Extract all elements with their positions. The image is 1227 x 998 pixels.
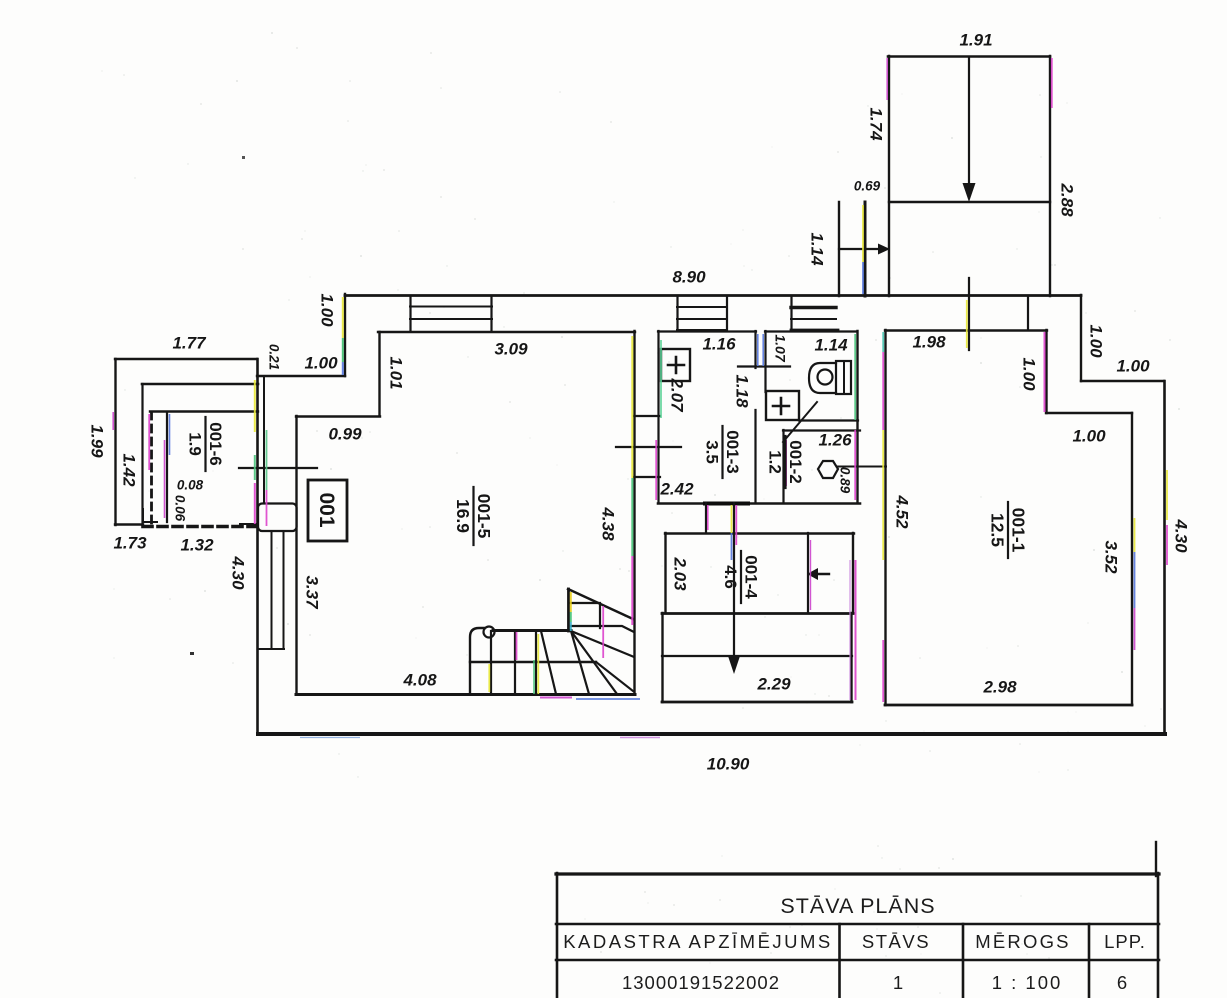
- room label 001-2 1.2: [766, 436, 806, 488]
- dim label 1.00: [1072, 426, 1106, 445]
- table column line 3: [1088, 924, 1091, 998]
- svg-text:1.07: 1.07: [772, 334, 788, 362]
- svg-text:1.26: 1.26: [818, 430, 852, 449]
- plus fixture box 2: [766, 391, 799, 420]
- window left wall bottom cap: [258, 648, 284, 650]
- svg-text:1.77: 1.77: [172, 333, 207, 352]
- dim label 0.08: [177, 478, 204, 493]
- svg-text:4.38: 4.38: [599, 506, 618, 541]
- svg-text:4.6: 4.6: [721, 565, 740, 589]
- dimension line short below 503: [705, 503, 707, 533]
- toilet tank inner line: [843, 361, 845, 394]
- toilet room left wall: [764, 331, 766, 392]
- dim label 3.37: [303, 575, 322, 610]
- annex bottom wall short: [115, 523, 143, 525]
- svg-text:1.73: 1.73: [113, 533, 147, 552]
- table outer left: [556, 873, 559, 998]
- table row line 2: [556, 959, 1159, 962]
- dim label 1.77: [172, 333, 207, 352]
- dim label 4.52: [893, 494, 912, 529]
- svg-text:0.99: 0.99: [328, 424, 362, 443]
- svg-text:MĒROGS: MĒROGS: [975, 931, 1070, 952]
- annex inner top wall: [150, 410, 258, 412]
- svg-text:3.37: 3.37: [303, 575, 322, 610]
- stairs newel circle: [484, 627, 495, 638]
- svg-text:1.74: 1.74: [867, 107, 886, 141]
- entrance porch left wall: [888, 56, 890, 296]
- room 001-1 left wall: [884, 330, 886, 705]
- room 001-3 right wall lower: [754, 410, 756, 503]
- window W3 bottom cap dark: [791, 329, 838, 332]
- toilet tank: [836, 361, 851, 394]
- table column line 1: [838, 924, 841, 998]
- svg-text:LPP.: LPP.: [1104, 931, 1146, 952]
- room 001-4 divider wall: [807, 533, 809, 613]
- left outer wall inner face: [263, 376, 265, 503]
- dim label 1.91: [959, 30, 992, 49]
- dim label 1.00: [318, 293, 337, 327]
- stairs upper tread 2: [571, 626, 634, 632]
- door lintel 001-3: [738, 365, 790, 367]
- svg-text:1.32: 1.32: [180, 535, 214, 554]
- svg-text:4.52: 4.52: [893, 494, 912, 529]
- window W2 right jamb: [726, 296, 728, 330]
- window W3 pane line 1 dark: [791, 306, 836, 309]
- dimension tick wall long: [616, 446, 681, 448]
- svg-text:8.90: 8.90: [672, 267, 706, 286]
- dim label 1.00: [1116, 356, 1150, 375]
- svg-text:1.91: 1.91: [959, 30, 992, 49]
- svg-text:1.00: 1.00: [1087, 324, 1106, 358]
- dim label 4.38: [599, 506, 618, 541]
- dim label 0.69: [854, 179, 881, 194]
- dim label 3.52: [1102, 540, 1121, 574]
- svg-text:1.98: 1.98: [912, 332, 946, 351]
- svg-text:12.5: 12.5: [988, 513, 1008, 547]
- room 001-1 top wall: [885, 329, 1047, 331]
- door swing diagonal: [783, 402, 817, 442]
- annex dashed bottom wall: [143, 525, 263, 529]
- dim label 10.90: [707, 754, 750, 773]
- middle bottom wall dark segment: [705, 502, 748, 506]
- bottom outer wall: [258, 732, 1165, 736]
- svg-text:1.14: 1.14: [814, 335, 848, 354]
- right outer wall step: [1081, 380, 1164, 382]
- right outer wall upper: [1080, 295, 1082, 381]
- dim label 1.18: [733, 374, 752, 408]
- svg-text:0.89: 0.89: [837, 467, 852, 494]
- dim label 1.99: [88, 424, 107, 458]
- svg-text:1.00: 1.00: [1020, 357, 1039, 391]
- dim label 1.73: [113, 533, 147, 552]
- room 001-5 bottom inner wall: [296, 693, 635, 696]
- svg-text:1.16: 1.16: [702, 334, 736, 353]
- svg-text:13000191522002: 13000191522002: [622, 972, 780, 993]
- dim label 3.09: [494, 339, 528, 358]
- plus sign 1: [668, 357, 684, 373]
- svg-text:001: 001: [315, 492, 338, 527]
- corridor block mid wall: [662, 655, 852, 657]
- dimension tick 1.98: [968, 278, 970, 350]
- top-left corner wall: [344, 294, 346, 376]
- room 001-1 notch wall: [1046, 412, 1132, 414]
- window W3 left jamb: [790, 296, 792, 330]
- svg-text:2.03: 2.03: [671, 556, 690, 591]
- room number box 001: [308, 480, 347, 541]
- dimension tick annex: [239, 467, 317, 469]
- svg-text:4.08: 4.08: [402, 670, 437, 689]
- dim label 0.06: [172, 495, 187, 522]
- main top outer wall: [345, 294, 1081, 297]
- svg-text:3.5: 3.5: [703, 440, 722, 464]
- svg-text:0.06: 0.06: [172, 495, 187, 522]
- svg-text:0.08: 0.08: [177, 478, 204, 493]
- svg-text:4.30: 4.30: [1172, 518, 1191, 553]
- annex second top wall: [142, 383, 258, 386]
- dim label 2.88: [1058, 182, 1077, 217]
- dim label 1.26: [818, 430, 852, 449]
- window W3 pane line 2: [791, 318, 836, 320]
- entrance arrow head: [963, 183, 976, 202]
- annex door mark: [143, 509, 157, 522]
- dim label 2.07: [668, 377, 687, 413]
- svg-text:STĀVS: STĀVS: [862, 931, 930, 952]
- room 001-1 right wall: [1131, 413, 1133, 705]
- svg-text:10.90: 10.90: [707, 754, 750, 773]
- room 001-5 right wall: [633, 331, 635, 694]
- corridor block bottom wall: [662, 701, 852, 704]
- toilet room top wall: [765, 330, 857, 332]
- svg-text:1.14: 1.14: [808, 232, 827, 266]
- stairs riser 2: [514, 631, 516, 694]
- svg-text:2.42: 2.42: [659, 479, 694, 498]
- entrance porch top wall: [888, 55, 1050, 58]
- room 001-4 arrow: [814, 573, 829, 575]
- svg-text:3.09: 3.09: [494, 339, 528, 358]
- stairs winder 2: [571, 631, 589, 694]
- dim label 1.00: [1087, 324, 1106, 358]
- room 001-3 top wall: [658, 330, 756, 332]
- room label 001-4 4.6: [721, 551, 761, 603]
- dim label 1.32: [180, 535, 214, 554]
- svg-text:2.88: 2.88: [1058, 182, 1077, 217]
- dimension tick wall 2.07 a: [634, 415, 660, 417]
- stairs upper tread line: [570, 603, 600, 628]
- corridor block right wall: [850, 613, 852, 702]
- svg-text:1.00: 1.00: [1116, 356, 1150, 375]
- svg-text:001-1: 001-1: [1009, 508, 1029, 553]
- svg-text:001-5: 001-5: [474, 494, 494, 539]
- right outer wall: [1163, 381, 1166, 734]
- middle block right wall: [856, 331, 858, 503]
- room 001-1 bottom wall: [885, 704, 1132, 707]
- dim label 1.14: [808, 232, 827, 266]
- room 001-5 upper left wall: [378, 332, 380, 416]
- svg-text:1.9: 1.9: [186, 432, 205, 456]
- toilet room bottom wall: [799, 419, 858, 421]
- room 001-4 right wall: [852, 533, 854, 613]
- middle bottom wall: [658, 502, 860, 505]
- room 001-3 left wall: [657, 331, 659, 503]
- dim label 1.16: [702, 334, 736, 353]
- window W1 pane line 2: [410, 318, 492, 320]
- stairs winder 3: [571, 631, 617, 694]
- speck dot b: [242, 156, 245, 159]
- left outer wall: [256, 359, 259, 733]
- table corner tick: [1155, 842, 1157, 876]
- window W1 left jamb: [409, 296, 411, 331]
- dimension arrow head down: [728, 656, 740, 674]
- table outer right: [1157, 873, 1160, 998]
- dim label 4.30: [1172, 518, 1191, 553]
- svg-text:4.30: 4.30: [229, 555, 248, 590]
- svg-text:16.9: 16.9: [453, 499, 473, 533]
- stairs lower diagonal 3: [596, 662, 633, 691]
- sink wall line: [838, 466, 886, 468]
- room 001-5 inner top wall: [378, 331, 635, 333]
- stairs riser 1: [490, 631, 492, 694]
- corridor block left wall: [661, 613, 663, 702]
- svg-text:1.00: 1.00: [1072, 426, 1106, 445]
- dim label 1.42: [120, 453, 139, 487]
- room 001-4 top wall: [665, 532, 854, 534]
- dim label 0.89: [837, 467, 852, 494]
- window left wall inner line: [283, 531, 285, 649]
- wall cap at step: [1027, 297, 1029, 330]
- svg-text:1.42: 1.42: [120, 453, 139, 487]
- toilet bowl: [809, 363, 836, 393]
- svg-text:KADASTRA APZĪMĒJUMS: KADASTRA APZĪMĒJUMS: [563, 931, 833, 952]
- scan color fringes: [113, 58, 1167, 738]
- svg-text:STĀVA PLĀNS: STĀVA PLĀNS: [780, 894, 935, 918]
- dim label 2.03: [671, 556, 690, 591]
- washroom lower room top wall: [783, 429, 860, 431]
- dim label 4.08: [402, 670, 437, 689]
- corridor arrow head: [878, 244, 890, 255]
- plus sign 2: [773, 398, 789, 414]
- dim label 0.99: [328, 424, 362, 443]
- entrance porch right wall: [1049, 56, 1051, 296]
- dim label 8.90: [672, 267, 706, 286]
- svg-text:2.07: 2.07: [668, 377, 687, 413]
- svg-text:6: 6: [1117, 972, 1127, 993]
- svg-text:2.98: 2.98: [982, 677, 1017, 696]
- svg-text:1: 1: [893, 972, 903, 993]
- toilet bowl circle: [818, 370, 833, 385]
- room 001-4 left wall: [664, 533, 666, 613]
- window W2 pane line 1: [677, 306, 727, 308]
- room 001-3 right wall upper: [754, 331, 756, 368]
- dim label 1.07: [772, 334, 788, 362]
- window W2 left jamb: [676, 296, 678, 330]
- window W1 pane line 1: [410, 306, 492, 308]
- sink hexagon: [818, 461, 838, 478]
- annex top wall: [115, 358, 257, 360]
- dimension line long with arrow: [733, 503, 735, 658]
- top-left step wall: [257, 375, 345, 377]
- annex dashed inner left wall: [150, 412, 153, 524]
- room 001-1 right wall upper: [1045, 330, 1047, 413]
- dim label 2.42: [659, 479, 694, 498]
- corridor arrow line: [839, 248, 879, 250]
- svg-text:3.52: 3.52: [1102, 540, 1121, 574]
- svg-text:0.69: 0.69: [854, 179, 881, 194]
- stairs left newel: [470, 628, 484, 694]
- dim label 1.74: [867, 107, 886, 141]
- room number 001 text: [315, 492, 338, 527]
- room 001-4 arrow head: [807, 568, 818, 580]
- dimension tick left 4.30: [240, 523, 258, 525]
- entrance arrow line: [968, 58, 970, 186]
- svg-text:0.21: 0.21: [266, 344, 281, 370]
- stairs mid rail: [470, 661, 596, 663]
- room 001-5 step wall: [296, 415, 380, 417]
- room 001-4 bottom wall: [662, 612, 853, 615]
- room label 001-5 16.9: [453, 487, 494, 545]
- stairs winder 1: [541, 631, 556, 694]
- dim label 4.30: [229, 555, 248, 590]
- annex left wall: [114, 359, 116, 525]
- stairs riser 3: [535, 631, 537, 694]
- svg-text:1.01: 1.01: [387, 356, 406, 389]
- svg-text:1 : 100: 1 : 100: [992, 972, 1063, 993]
- svg-text:1.00: 1.00: [304, 353, 338, 372]
- svg-text:1.18: 1.18: [733, 374, 752, 408]
- annex second left wall: [141, 384, 143, 525]
- window W1 right jamb: [490, 296, 492, 331]
- window left wall mid line: [271, 531, 273, 649]
- stairs top rail: [493, 629, 571, 632]
- room label 001-1 12.5: [988, 502, 1029, 558]
- stairs post: [567, 589, 570, 631]
- doorway box left wall: [258, 504, 297, 532]
- washroom lower room left wall: [782, 430, 784, 503]
- corridor left wall: [838, 202, 840, 296]
- room label 001-3 3.5: [703, 426, 743, 478]
- stairs upper diagonal 1: [568, 589, 633, 619]
- svg-text:1.00: 1.00: [318, 293, 337, 327]
- svg-text:1.99: 1.99: [88, 424, 107, 458]
- dim label 1.98: [912, 332, 946, 351]
- svg-text:001-2: 001-2: [786, 440, 805, 483]
- dimension tick wall 2.42: [634, 476, 660, 478]
- svg-text:001-3: 001-3: [723, 430, 742, 473]
- dim label 2.29: [756, 674, 791, 693]
- stairs upper diagonal 2: [571, 631, 634, 657]
- dim label 1.01: [387, 356, 406, 389]
- table row line 1: [556, 923, 1159, 926]
- dim label 1.14: [814, 335, 848, 354]
- room label 001-6 1.9: [186, 417, 226, 471]
- window W2 bottom cap: [677, 329, 727, 331]
- entrance porch divider wall: [889, 201, 1050, 203]
- dim label 0.21: [266, 344, 281, 370]
- dim label 2.98: [982, 677, 1017, 696]
- annex inner solid wall: [166, 412, 168, 522]
- dim label 1.00: [304, 353, 338, 372]
- plus fixture box 1: [661, 349, 690, 381]
- svg-text:1.2: 1.2: [766, 450, 785, 474]
- svg-text:001-4: 001-4: [742, 555, 761, 599]
- svg-text:001-6: 001-6: [206, 422, 225, 465]
- speck dot a: [190, 652, 194, 655]
- svg-text:2.29: 2.29: [756, 674, 791, 693]
- dim label 1.00: [1020, 357, 1039, 391]
- room 001-5 left inner wall: [295, 416, 297, 694]
- table outer top: [556, 872, 1159, 875]
- window W2 pane line 2: [677, 318, 727, 320]
- corridor middle wall: [864, 202, 867, 296]
- table column line 2: [962, 924, 965, 998]
